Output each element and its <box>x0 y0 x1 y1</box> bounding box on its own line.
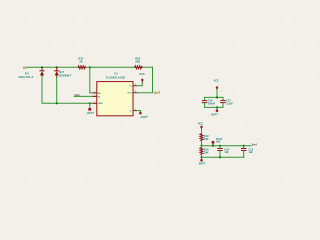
power -BATT divider <box>201 157 203 159</box>
diode D17 <box>55 68 59 78</box>
capacitor C15 <box>242 146 246 158</box>
svg-text:SMAJ40-A: SMAJ40-A <box>19 75 34 79</box>
resistor R16 <box>200 148 203 155</box>
svg-text:U1: U1 <box>114 72 118 76</box>
node c15 <box>243 145 245 147</box>
pin OUT <box>133 92 137 94</box>
capacitor C17 <box>221 97 226 107</box>
node c14 bottom <box>219 156 221 158</box>
pin VDD <box>133 85 137 87</box>
pin GND left <box>93 102 97 104</box>
capacitor C14 <box>218 146 222 158</box>
wire mid <box>201 140 203 146</box>
wire OUT net <box>137 67 153 92</box>
svg-text:-BATT: -BATT <box>140 116 148 119</box>
svg-text:VCC: VCC <box>139 72 145 76</box>
svg-text:1uF: 1uF <box>249 151 254 154</box>
svg-text:10K: 10K <box>204 151 209 154</box>
svg-text:TLV3691AIDB: TLV3691AIDB <box>106 75 125 79</box>
svg-text:100nF: 100nF <box>208 102 216 105</box>
wire bottom <box>201 154 203 158</box>
svg-text:D17: D17 <box>59 70 64 74</box>
svg-text:3: 3 <box>135 91 136 93</box>
power -BATT at V- <box>137 110 141 112</box>
svg-text:GND: GND <box>98 103 103 105</box>
svg-text:1uF: 1uF <box>224 151 229 154</box>
node cap rail <box>216 96 218 98</box>
svg-text:10K: 10K <box>204 138 209 141</box>
svg-text:-BATT: -BATT <box>198 162 206 165</box>
wire vcc down <box>216 90 218 98</box>
svg-text:20K: 20K <box>135 60 140 64</box>
svg-text:-BATT: -BATT <box>211 114 219 117</box>
op-amp U1 <box>97 82 133 116</box>
svg-text:OUT: OUT <box>127 93 132 95</box>
svg-text:1: 1 <box>94 91 95 93</box>
node top-D4 <box>41 66 43 68</box>
svg-text:2.2uF: 2.2uF <box>226 102 233 105</box>
node gnd-batt <box>89 102 91 104</box>
power -BATT cap-cluster <box>216 107 218 109</box>
svg-text:500: 500 <box>216 141 221 144</box>
resistor R19 <box>200 134 203 141</box>
pin IN+ <box>93 92 97 94</box>
svg-text:4: 4 <box>94 95 95 97</box>
resistor R18 <box>135 66 142 69</box>
svg-text:2: 2 <box>94 102 95 104</box>
wire D17 down <box>56 77 58 103</box>
node feedback tap <box>89 66 91 68</box>
svg-text:Vref: Vref <box>252 142 257 146</box>
wire divider bottom rail <box>202 156 244 158</box>
pin IN- <box>93 95 97 97</box>
node cap bottom <box>216 106 218 108</box>
wire D4 down <box>42 77 93 103</box>
svg-text:D4: D4 <box>25 72 29 76</box>
wire vref <box>74 95 93 97</box>
svg-text:BZX848-7: BZX848-7 <box>59 73 72 77</box>
svg-text:V-: V- <box>130 111 132 113</box>
svg-text:-BATT: -BATT <box>87 112 95 115</box>
wire cap top rail <box>205 96 223 98</box>
node c14 <box>219 145 221 147</box>
capacitor C16 <box>202 97 207 107</box>
svg-text:OUT: OUT <box>154 91 161 95</box>
node gnd-D17 <box>56 102 58 104</box>
svg-text:Vref: Vref <box>74 93 79 97</box>
node divider bottom <box>200 156 202 158</box>
wire vref net <box>202 145 252 147</box>
wire VCC to VDD <box>137 83 143 86</box>
testpoint TP13 <box>212 141 215 144</box>
svg-text:IN-: IN- <box>98 96 101 98</box>
node divider mid <box>200 145 202 147</box>
node top-D17 <box>56 66 58 68</box>
svg-text:1K: 1K <box>79 60 82 64</box>
svg-text:VCC: VCC <box>214 80 219 83</box>
wire top main <box>27 66 153 68</box>
pin V- <box>133 110 137 112</box>
svg-text:2: 2 <box>135 109 136 111</box>
node tp <box>212 145 214 147</box>
svg-text:5: 5 <box>135 84 136 86</box>
svg-text:VCC: VCC <box>198 122 203 125</box>
wire cap bottom rail <box>205 106 223 108</box>
power -BATT left <box>89 103 91 107</box>
wire feedback vertical <box>90 67 93 93</box>
diode D4 <box>40 68 44 78</box>
resistor R17 <box>78 66 85 69</box>
